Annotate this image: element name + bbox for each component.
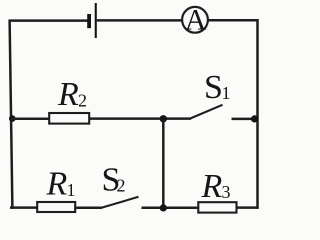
label R2 [57, 76, 87, 113]
switch S2 blade [101, 197, 139, 208]
svg-text:R: R [201, 168, 223, 205]
wire left side [10, 20, 13, 209]
switch S1 blade [191, 105, 223, 119]
node junction right-middle [251, 115, 258, 122]
label S1 [204, 69, 231, 106]
wire S1 to right side [232, 118, 258, 121]
node junction middle [160, 115, 167, 122]
resistor R2 [49, 113, 89, 124]
svg-text:A: A [185, 4, 207, 37]
wire R1 to S2 [75, 206, 102, 209]
svg-text:S: S [204, 69, 223, 106]
resistor R3 [198, 202, 236, 212]
resistor R1 [37, 202, 75, 212]
battery cell [87, 3, 97, 38]
wire right side [256, 19, 259, 209]
svg-text:1: 1 [222, 83, 231, 103]
svg-text:R: R [57, 76, 79, 113]
wire S2 to R3 [142, 207, 199, 210]
node junction bottom [160, 204, 167, 211]
ammeter A [182, 4, 208, 37]
node junction left-middle [9, 115, 16, 122]
svg-text:1: 1 [67, 180, 76, 200]
wire battery to ammeter [97, 19, 182, 22]
wire bottom-left to R1 [10, 206, 38, 209]
svg-text:3: 3 [222, 182, 231, 202]
label R1 [46, 165, 76, 202]
wire middle vertical [162, 119, 165, 208]
svg-text:2: 2 [117, 175, 126, 195]
label R3 [201, 168, 231, 205]
svg-text:2: 2 [78, 91, 87, 111]
label S2 [102, 161, 126, 198]
wire R2 to S1 [89, 117, 191, 120]
wire top-left segment [10, 19, 89, 22]
wire ammeter to top-right corner [208, 19, 259, 22]
wire middle-left to R2 [12, 117, 51, 120]
svg-text:R: R [46, 165, 68, 202]
wire R3 to bottom-right corner [237, 206, 259, 209]
